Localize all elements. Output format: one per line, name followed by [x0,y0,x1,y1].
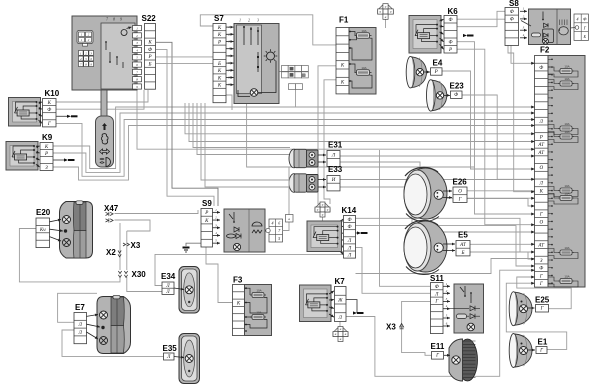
K6 pin arrows [440,19,444,49]
E23 arrow [444,94,450,97]
column switch pod [96,116,114,167]
svg-text:Л: Л [165,284,170,289]
lamp E7 label [75,303,85,312]
relay K10 label [45,89,60,98]
wire [457,18,505,20]
wire [322,217,324,221]
wire [115,220,151,231]
svg-text:Р: Р [147,55,151,60]
wire [155,254,344,285]
connector cross X [378,4,394,20]
relay K9 body [6,142,38,171]
svg-text:Г: Г [435,354,439,359]
lamp E11 label [431,342,445,351]
svg-text:О: О [539,166,543,171]
svg-text:Л: Л [539,120,544,125]
E11 arrow [444,354,450,357]
K7 pin arrows [329,291,334,317]
lamp E35 body [179,334,200,384]
E7 arrows [87,314,101,339]
svg-text:Л: Л [347,246,352,251]
svg-text:К: К [340,64,345,69]
S7 pin arrows [226,25,234,87]
svg-text:X47: X47 [104,204,119,213]
relay K10 body [9,98,41,127]
svg-text:X2: X2 [106,248,116,257]
wire [356,247,535,273]
switch S8 side connector [570,14,588,40]
lamp E20 connector [36,218,50,248]
fuse box F3 body [245,285,272,336]
svg-text:К: К [204,219,209,224]
svg-text:K9: K9 [42,133,53,142]
svg-text:F3: F3 [233,276,243,285]
svg-text:10A: 10A [564,192,569,196]
E33 arrows [318,178,326,188]
wire [206,247,233,303]
svg-text:Г: Г [539,274,543,279]
connector X3 label [131,241,141,250]
svg-text:Ф: Ф [510,18,514,23]
wire [200,15,336,45]
wire [185,103,535,134]
svg-text:Ф: Ф [347,225,351,230]
svg-text:Г: Г [458,197,462,202]
lamp E23 label [450,82,465,91]
lamp E33 [289,174,318,193]
wire [467,199,535,207]
svg-text:E1: E1 [538,338,548,347]
relay K14 body [307,221,342,252]
fuse box F1 connector [336,28,349,94]
key symbol [121,27,131,36]
wire [197,103,290,155]
wire [115,210,199,214]
svg-text:X30: X30 [132,270,147,279]
svg-text:3: 3 [257,19,259,23]
svg-text:Г: Г [539,282,543,287]
svg-text:F2: F2 [540,46,550,55]
svg-text:Л: Л [347,239,352,244]
switch S11 body [450,284,484,333]
connector X47 label [104,204,119,213]
relay K14 label [342,206,357,215]
lamp E20 body [60,201,93,258]
assembly pin row [133,26,142,90]
svg-text:К: К [217,33,222,38]
K14 pin arrows [339,219,343,255]
svg-text:Л: Л [539,182,544,187]
wire [19,229,120,282]
fuse box F1 label [339,16,349,25]
wire [126,231,128,270]
wire [508,46,535,192]
svg-text:Ф: Ф [448,18,452,23]
fuse box F1 body [349,28,376,95]
wire [340,179,535,181]
svg-text:E4: E4 [433,59,443,68]
wire [511,46,535,64]
svg-text:Г: Г [539,213,543,218]
svg-text:K10: K10 [45,89,60,98]
wire [53,107,535,169]
svg-text:К: К [340,80,345,85]
svg-text:K6: K6 [448,7,459,16]
relay K6 label [448,7,459,16]
relay K7 label [335,277,346,286]
lamp E23 connector [451,91,463,98]
E34 arrow [174,288,184,291]
svg-text:Г: Г [47,122,51,127]
svg-text:4: 4 [577,17,579,22]
connector pad 1 [77,31,93,47]
svg-text:И: И [331,178,336,183]
lamp E4 label [433,59,443,68]
E26 arrows [443,190,452,199]
wire [506,283,566,349]
K10 pin arrows [39,102,43,124]
ground S9 [183,247,190,253]
lamp E35 label [163,344,178,353]
svg-text:Кч: Кч [39,228,46,233]
svg-text:Л: Л [434,292,439,297]
lamp E11 body [449,339,478,381]
wire [247,97,475,168]
wire [380,150,431,286]
svg-text:Ф: Ф [539,66,543,71]
svg-text:5: 5 [278,236,280,241]
wire [56,115,67,117]
headlamp E5 connector [456,241,470,256]
svg-text:Л: Л [347,253,352,258]
lamp E33 label [328,165,343,174]
wire [457,42,535,214]
svg-text:К: К [217,84,222,89]
fuse box F3 label [233,276,243,285]
K9 pin arrows [36,146,40,168]
svg-text:Л: Л [338,316,343,321]
ground near K6 [463,34,474,37]
wire [356,226,535,266]
lamp E11 connector [432,352,444,360]
junction block [282,66,309,90]
wire [156,62,213,64]
wire [56,90,144,109]
wire [119,223,121,270]
svg-text:2: 2 [248,19,250,23]
ground K14 [357,231,368,234]
svg-text:Ф: Ф [435,285,439,290]
svg-text:8: 8 [113,18,115,22]
wire [283,167,290,231]
connector X3 [123,243,129,246]
fuse box F3 connector [233,285,245,336]
wire [324,80,336,204]
svg-text:X3: X3 [131,241,141,250]
E4 arrow [424,71,431,74]
pin numbers [106,18,122,22]
wire [517,277,571,309]
ignition switch assembly body [72,16,137,90]
svg-text:E35: E35 [163,344,178,353]
lamp E7 body [97,295,131,353]
svg-text:E26: E26 [453,178,468,187]
svg-text:K14: K14 [342,206,357,215]
wire [137,90,535,149]
wire [356,232,362,234]
S9 pin arrows [213,208,221,245]
wire [276,72,282,96]
svg-text:S8: S8 [509,0,519,8]
wire [340,162,535,198]
wire [442,71,535,169]
wire [457,11,505,26]
switch S9 connector [201,209,213,248]
svg-text:О: О [458,190,462,195]
svg-text:S9: S9 [202,199,212,208]
wire [467,190,535,192]
inline connector near S9 [286,215,294,223]
svg-text:К: К [217,76,222,81]
svg-text:К: К [539,189,544,194]
switch S8 connector [505,8,519,46]
headlamp E5 [404,220,447,274]
connector X47 [106,212,114,223]
wire [402,301,432,355]
svg-text:Г: Г [540,307,544,312]
svg-text:10A: 10A [564,184,569,188]
svg-text:Ф: Ф [510,10,514,15]
lamp E25 [509,292,532,326]
E5 arrows [443,243,455,252]
svg-text:Ф: Ф [539,267,543,272]
svg-text:X3: X3 [386,323,396,332]
relay K6 connector [444,16,457,54]
wire [53,159,64,161]
switch S8 body [520,7,571,45]
relay K14 connector [344,216,356,259]
svg-text:а: а [288,217,290,221]
wire [62,330,164,356]
E1 arrow [528,349,535,352]
wire [193,103,290,148]
headlamp E26 label [453,178,468,187]
svg-text:Л: Л [78,331,83,336]
svg-text:1: 1 [239,19,241,23]
wire [470,252,535,259]
svg-text:S11: S11 [430,274,444,283]
wire [56,120,535,177]
E25 arrow [528,307,535,310]
ignition switch contacts [105,41,123,68]
svg-text:K7: K7 [335,277,346,286]
wire [156,50,214,206]
svg-text:9: 9 [120,18,122,22]
lamp E33 connector [327,176,340,191]
lamp E34 body [179,267,200,314]
E20 arrows [50,219,64,242]
lamp E31 [289,149,318,168]
F2 entry arrows [531,62,535,285]
switch S9 label [202,199,212,208]
wire [385,19,387,28]
wire [201,103,290,180]
fuse box F2 connector [535,56,549,288]
wire [356,218,535,252]
svg-text:Л: Л [166,355,171,360]
connector X30 [118,271,127,277]
wire [56,90,148,102]
svg-text:Р: Р [44,152,48,157]
connector X2 label [106,248,116,257]
svg-text:Ф: Ф [347,218,351,223]
switch S11 connector [431,283,444,334]
relay K9 label [42,133,53,142]
svg-text:10A: 10A [564,246,569,250]
headlamp E26 [404,167,447,221]
connector X3 lower label [386,323,396,332]
svg-text:Р: Р [434,70,438,75]
switch S7 body [234,19,279,104]
lamp E34 connector [162,282,174,295]
svg-text:Ф: Ф [448,41,452,46]
wire [340,155,535,157]
connector cross below K7 [333,327,348,342]
lamp E1 label [538,338,548,347]
wire [457,49,535,225]
wire [346,270,535,376]
lamp E34 label [161,272,176,281]
svg-text:Г: Г [434,300,438,305]
svg-text:Л: Л [165,290,170,295]
switch S11 label [430,274,444,283]
svg-text:К: К [147,41,152,46]
svg-text:E34: E34 [161,272,176,281]
svg-text:К: К [217,26,222,31]
svg-text:Ж: Ж [337,298,343,303]
connector X30 label [132,270,147,279]
svg-text:E23: E23 [450,82,465,91]
wire [53,126,535,181]
svg-text:К: К [44,145,49,150]
lamp E35 connector [164,353,175,360]
wire [318,66,336,204]
lamp E4 [406,56,426,88]
wire [295,90,297,107]
wire [186,243,201,246]
svg-text:Б: Б [583,34,587,39]
switch S8 label [509,0,519,8]
E31 arrows [318,154,326,164]
wire [356,274,431,294]
relay K9 connector [40,143,53,171]
connector X2 [118,251,121,257]
svg-text:E20: E20 [36,208,51,217]
column stalk [101,90,107,117]
wire [189,103,535,142]
svg-text:7: 7 [106,18,108,22]
lamp E31 label [328,141,343,150]
svg-text:Ф: Ф [454,93,458,98]
lamp E1 connector [536,347,547,354]
svg-text:Б: Б [461,251,465,256]
wire [156,42,218,206]
wire [346,300,357,313]
svg-text:E11: E11 [431,342,445,351]
svg-text:Б: Б [217,62,221,67]
S11 pin arrows [443,282,450,328]
ground K9 [64,158,75,161]
headlamp E5 label [458,231,468,240]
fuse box F2 body [548,56,585,288]
switch S22 label [142,14,157,23]
wire [53,113,535,172]
headlamp E26 connector [453,187,467,202]
wire [462,95,535,179]
svg-text:К: К [217,69,222,74]
svg-text:Р: Р [217,40,221,45]
svg-text:E33: E33 [328,165,343,174]
wire [127,277,162,292]
svg-text:F1: F1 [339,16,349,25]
connector cross above K14 [315,202,330,217]
switch S22 connector [145,24,156,90]
switch S7 label [214,14,224,23]
svg-text:О: О [539,220,543,225]
wire [226,95,232,110]
svg-text:Г: Г [539,349,543,354]
svg-text:Ф: Ф [47,108,51,113]
svg-text:Л: Л [331,153,336,158]
svg-text:Р: Р [539,135,543,140]
wire [340,187,535,232]
lamp E20 label [36,208,51,217]
lamp E1 [509,334,532,368]
lamp E25 label [535,296,550,305]
fuse box F2 label [540,46,550,55]
svg-text:К: К [236,302,241,307]
E35 arrow [174,356,184,359]
svg-text:Р: Р [448,48,452,53]
lamp E25 connector [536,305,549,313]
svg-text:E31: E31 [328,141,343,150]
switch S9 side connector [266,219,283,242]
switch S9 body [224,209,265,252]
wire [156,56,213,58]
wire [58,293,97,322]
svg-text:E7: E7 [75,303,85,312]
svg-text:S7: S7 [214,14,224,23]
ground K7 [353,311,364,314]
lamp E4 connector [431,68,443,75]
connector pad 2 [79,51,94,67]
svg-text:S22: S22 [142,14,157,23]
wire [339,322,341,329]
lamp E7 connector [74,313,87,344]
wire [470,243,535,245]
svg-text:Р: Р [204,211,208,216]
svg-text:Ф: Ф [148,48,152,53]
svg-text:E25: E25 [535,296,550,305]
relay K6 body [409,16,441,54]
relay K7 connector [335,287,347,322]
svg-text:4: 4 [272,221,274,226]
svg-text:E5: E5 [458,231,468,240]
svg-text:Л: Л [78,323,83,328]
ground K10 [67,115,78,118]
switch S7 connector [213,24,226,103]
lamp E23 [427,80,447,112]
